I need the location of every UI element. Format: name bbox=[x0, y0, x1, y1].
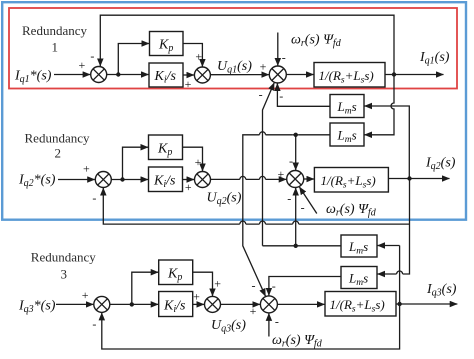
red boundary box (redundancy 1 region) bbox=[9, 8, 457, 89]
svg-text:Iq1(s): Iq1(s) bbox=[419, 50, 450, 67]
svg-text:-: - bbox=[289, 154, 293, 168]
wire branch up to Kp2 bbox=[123, 147, 149, 179]
wire Ki/s2 output to S2b bbox=[183, 179, 195, 181]
svg-text:+: + bbox=[185, 77, 192, 91]
wire B2 input from Iq2 vertical with hop bbox=[377, 179, 409, 275]
svg-text:Iq3*(s): Iq3*(s) bbox=[18, 299, 56, 316]
svg-text:+: + bbox=[195, 155, 202, 169]
svg-text:1/(Rs+Lss): 1/(Rs+Lss) bbox=[321, 173, 376, 191]
svg-text:+: + bbox=[83, 162, 90, 176]
wire A1 output into S1c bottom bbox=[277, 83, 330, 106]
block plant 2: 1/(Rs+Lss) bbox=[314, 168, 388, 193]
wire Ki/s3 output to S3b bbox=[193, 303, 204, 305]
wire omega diagonal into S2c bbox=[299, 187, 316, 214]
block plant 1: 1/(Rs+Lss) bbox=[314, 63, 385, 88]
wire Iq3 tap vertical and feedback to S3a bbox=[102, 246, 400, 350]
wire B1 output to left junction bbox=[263, 245, 342, 247]
label Redundancy 3 bbox=[31, 250, 96, 282]
wire S2b to S2c with hops bbox=[211, 178, 287, 180]
svg-text:Iq3(s): Iq3(s) bbox=[426, 282, 457, 299]
summer S3c (plant input sum 3) bbox=[260, 296, 277, 313]
summer S1b (PI output sum) bbox=[194, 67, 210, 83]
svg-text:-: - bbox=[282, 50, 286, 64]
svg-text:Iq2(s): Iq2(s) bbox=[425, 156, 456, 173]
block Ki/s 2 bbox=[149, 167, 183, 192]
node junction dot after S1a bbox=[116, 72, 120, 76]
wire Iq2 feedback down and left to S2a with hops bbox=[103, 188, 409, 224]
wire branch up to Kp3 bbox=[132, 272, 159, 304]
summer S1a (error sum 1) bbox=[91, 67, 107, 83]
svg-text:Iq1*(s): Iq1*(s) bbox=[14, 69, 52, 86]
wire S3a to Ki/s3 bbox=[110, 303, 159, 305]
node junction dot after S2a bbox=[120, 177, 124, 181]
svg-text:3: 3 bbox=[60, 267, 67, 282]
svg-text:-: - bbox=[90, 49, 94, 63]
wire Kp1 output to summer S1b bbox=[183, 44, 202, 67]
svg-text:-: - bbox=[92, 317, 96, 331]
wire A2 output left with junction and hop bbox=[243, 135, 330, 296]
svg-text:1/(Rs+Lss): 1/(Rs+Lss) bbox=[319, 68, 374, 86]
wire branch up to Kp1 bbox=[118, 44, 149, 75]
wire Iq1* input arrow bbox=[54, 74, 90, 76]
block Kp3 bbox=[159, 260, 193, 285]
wire Iq1 feedback to S1a (top loop) bbox=[100, 15, 394, 74]
wire S3c to plant block 3 bbox=[277, 303, 324, 305]
node junction dot on Iq3 output bbox=[397, 302, 401, 306]
label Redundancy 1 bbox=[22, 23, 87, 55]
summer S2b bbox=[195, 172, 211, 188]
wire Kp3 output to S3b bbox=[193, 272, 213, 296]
svg-text:+: + bbox=[193, 289, 200, 303]
summer S3b bbox=[205, 296, 221, 312]
block Lms B1 bbox=[341, 235, 377, 257]
summer S1c (plant input sum) bbox=[269, 66, 286, 83]
svg-text:+: + bbox=[278, 167, 285, 181]
node junction dot on Iq2 output bbox=[407, 176, 411, 180]
summer S2c (plant input sum 2) bbox=[287, 171, 304, 188]
node junction dot after S3a bbox=[130, 302, 134, 306]
node dot on B1 output bbox=[294, 244, 298, 248]
label Redundancy 2 bbox=[25, 130, 90, 160]
block Lms A2 bbox=[330, 123, 364, 146]
wire B1 output diagonal into S1c bottom-left bbox=[263, 83, 275, 246]
wire B2 output into S3c top bbox=[269, 277, 341, 296]
wire omega_r flux input to S1c bbox=[277, 33, 279, 66]
svg-text:+: + bbox=[195, 50, 202, 64]
svg-text:-: - bbox=[287, 192, 291, 206]
wire Iq3* input arrow bbox=[56, 303, 93, 305]
wire Iq2 output bbox=[388, 178, 449, 180]
block Lms A1 bbox=[330, 95, 364, 118]
summer S2a (error sum 2) bbox=[95, 172, 111, 188]
wire B1 input from Iq3 tap bbox=[377, 245, 399, 247]
wire S2a to Ki/s2 bbox=[111, 179, 148, 181]
wire omega_r input up into S3c bbox=[268, 313, 270, 336]
svg-text:-: - bbox=[252, 278, 256, 292]
svg-text:Redundancy: Redundancy bbox=[25, 130, 90, 145]
svg-text:1/(Rs+Lss): 1/(Rs+Lss) bbox=[330, 297, 385, 315]
svg-text:+: + bbox=[250, 304, 257, 318]
svg-text:Iq2*(s): Iq2*(s) bbox=[18, 173, 56, 190]
svg-text:+: + bbox=[185, 180, 192, 194]
svg-text:-: - bbox=[275, 315, 279, 329]
wire A2 branch down into S2c top bbox=[295, 135, 297, 170]
wire Iq1 output bbox=[385, 74, 444, 76]
block Kp2 bbox=[149, 135, 183, 160]
svg-text:-: - bbox=[279, 89, 283, 103]
svg-text:Redundancy: Redundancy bbox=[22, 23, 87, 38]
svg-text:2: 2 bbox=[54, 146, 61, 161]
node dot on A2 output bbox=[294, 133, 298, 137]
block Ki/s 1 bbox=[149, 63, 183, 87]
block Lms B2 bbox=[341, 267, 377, 289]
svg-text:1: 1 bbox=[51, 40, 58, 55]
svg-text:-: - bbox=[92, 191, 96, 205]
svg-text:+: + bbox=[214, 277, 221, 291]
blue boundary box (redundancy 1+2 region) bbox=[2, 2, 466, 220]
wire S2c to plant block 2 bbox=[304, 178, 314, 180]
svg-text:Redundancy: Redundancy bbox=[31, 250, 96, 265]
svg-text:-: - bbox=[301, 200, 305, 214]
wire Kp2 output to S2b bbox=[183, 147, 203, 171]
block plant 3: 1/(Rs+Lss) bbox=[325, 292, 396, 317]
svg-text:+: + bbox=[82, 288, 89, 302]
node junction dot on Iq1 output bbox=[392, 72, 396, 76]
svg-text:-: - bbox=[272, 279, 276, 293]
wire Iq3 output bbox=[396, 303, 457, 305]
block Kp1 bbox=[150, 32, 184, 56]
wire Ki/s1 output to S1b bbox=[183, 74, 194, 76]
block Ki/s 3 bbox=[159, 292, 193, 317]
svg-text:-: - bbox=[259, 88, 263, 102]
wire Iq2* input arrow bbox=[58, 179, 95, 181]
svg-text:+: + bbox=[79, 58, 86, 72]
summer S3a (error sum 3) bbox=[94, 296, 110, 312]
wire A2 input from Iq1 dot with hop bbox=[364, 75, 394, 135]
wire S1a to Ki/s bbox=[107, 74, 149, 76]
wire S3b to S3c bbox=[221, 303, 261, 305]
svg-text:+: + bbox=[260, 60, 267, 74]
wire S1b to S1c bbox=[210, 74, 269, 76]
wire S1c to plant block 1 bbox=[286, 74, 313, 76]
wire B1 tap up into S2c bottom bbox=[295, 188, 297, 246]
wire A1 input from Iq2 tap bbox=[364, 106, 409, 179]
